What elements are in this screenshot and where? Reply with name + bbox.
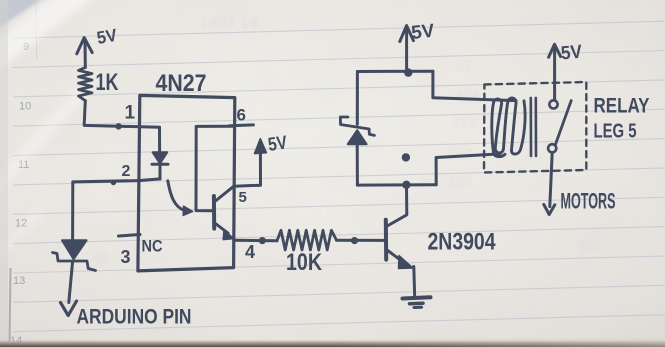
node dot on pin1 wire <box>115 123 121 129</box>
svg-text:220: 220 <box>448 173 472 189</box>
transistor Q1 2N3904 base bar <box>384 220 388 260</box>
margin line numbers <box>10 41 31 347</box>
5V supply arrow (top left) <box>77 38 92 68</box>
page left edge <box>0 0 11 347</box>
svg-text:50: 50 <box>95 250 109 265</box>
driver block top rail <box>357 70 433 73</box>
arduino pin arrowhead <box>61 301 77 316</box>
node dot base <box>351 237 358 244</box>
node dot (floating) <box>402 153 410 161</box>
5V supply arrow (driver block) <box>400 26 414 70</box>
wire emitter to ground <box>412 267 416 298</box>
svg-text:13: 13 <box>13 275 25 287</box>
ground symbol <box>403 297 431 307</box>
transistor Q1 emitter with arrow <box>386 250 413 269</box>
corner wedge <box>0 0 44 28</box>
bottom dark strip <box>0 340 665 347</box>
LED cathode wire to pin2 <box>139 179 160 181</box>
relay contact bottom <box>548 144 556 152</box>
svg-text:2: 2 <box>122 163 131 180</box>
zener diode D1 (flyback) <box>340 117 374 144</box>
5V supply arrow (relay) <box>549 44 561 100</box>
pin6 stub wire <box>230 123 254 127</box>
resistor R2 10K zigzag <box>277 230 337 250</box>
svg-text:4N27: 4N27 <box>156 70 207 97</box>
svg-text:5V: 5V <box>410 21 435 44</box>
svg-text:6: 6 <box>237 106 246 125</box>
svg-text:5V: 5V <box>267 132 289 155</box>
transistor Q1 collector <box>386 186 407 227</box>
svg-text:5V: 5V <box>95 25 118 48</box>
svg-text:5: 5 <box>239 189 247 206</box>
svg-text:773: 773 <box>452 115 476 131</box>
optocoupler U1 4N27 box <box>138 95 235 271</box>
svg-text:RS: RS <box>580 237 601 254</box>
svg-text:3: 3 <box>121 247 131 267</box>
coupling arrow inside 4N27 <box>168 181 193 216</box>
wire pin2 to left corner <box>73 181 139 241</box>
MOTORS wire with arrow <box>544 153 555 215</box>
node dot 5V rail <box>404 68 412 76</box>
LED inside 4N27 <box>152 152 168 179</box>
relay coil <box>492 98 525 157</box>
ghost show-through marks <box>95 15 601 265</box>
phototransistor base bar <box>212 196 216 229</box>
svg-text:10K: 10K <box>286 249 323 276</box>
svg-text:RELAY: RELAY <box>594 95 650 118</box>
svg-text:1: 1 <box>125 103 136 124</box>
resistor R1 1K zigzag <box>79 68 93 101</box>
wire 1K to pin1 corner <box>84 101 159 128</box>
svg-text:ARDUINO PIN: ARDUINO PIN <box>77 306 192 329</box>
pin5 wire to 5V <box>234 143 261 187</box>
svg-text:5V: 5V <box>560 42 583 65</box>
5V arrow head (optocoupler pin5) <box>254 139 266 154</box>
zener diode D2 (arduino pin) <box>53 240 96 270</box>
svg-text:NC: NC <box>142 237 163 256</box>
svg-text:MOTORS: MOTORS <box>561 189 616 214</box>
relay switch blade <box>556 101 572 144</box>
driver block left leg (lower) <box>356 144 359 185</box>
phototransistor base path inside 4N27 <box>196 126 234 211</box>
svg-text:4: 4 <box>245 242 255 262</box>
phototransistor collector <box>215 186 234 201</box>
node dot on pin2 wire <box>111 180 117 186</box>
driver block bottom rail <box>357 183 436 186</box>
wire 10K to transistor base <box>337 239 385 242</box>
svg-text:10: 10 <box>19 101 31 113</box>
svg-text:2N3904: 2N3904 <box>428 229 496 256</box>
phototransistor emitter with arrow <box>215 223 234 240</box>
LED anode wire inside 4N27 <box>158 127 161 152</box>
wire block to relay coil bottom <box>436 154 500 185</box>
svg-text:1451 14: 1451 14 <box>200 15 258 32</box>
svg-text:1K: 1K <box>96 69 119 96</box>
svg-text:LEG 5: LEG 5 <box>594 121 637 143</box>
svg-text:23: 23 <box>455 57 471 73</box>
pin4 wire <box>234 239 277 243</box>
relay K1 dashed box <box>484 82 586 173</box>
node dot pin4 <box>259 237 266 244</box>
relay core bars <box>531 98 536 156</box>
relay contact top <box>549 100 557 108</box>
node dot bottom rail <box>402 181 410 189</box>
pin3 NC stub <box>119 235 141 237</box>
glare streaks <box>0 0 92 258</box>
driver block left leg (upper) <box>356 72 359 125</box>
wire zener to arduino arrow <box>69 262 73 303</box>
wire block to relay coil top <box>433 71 516 100</box>
